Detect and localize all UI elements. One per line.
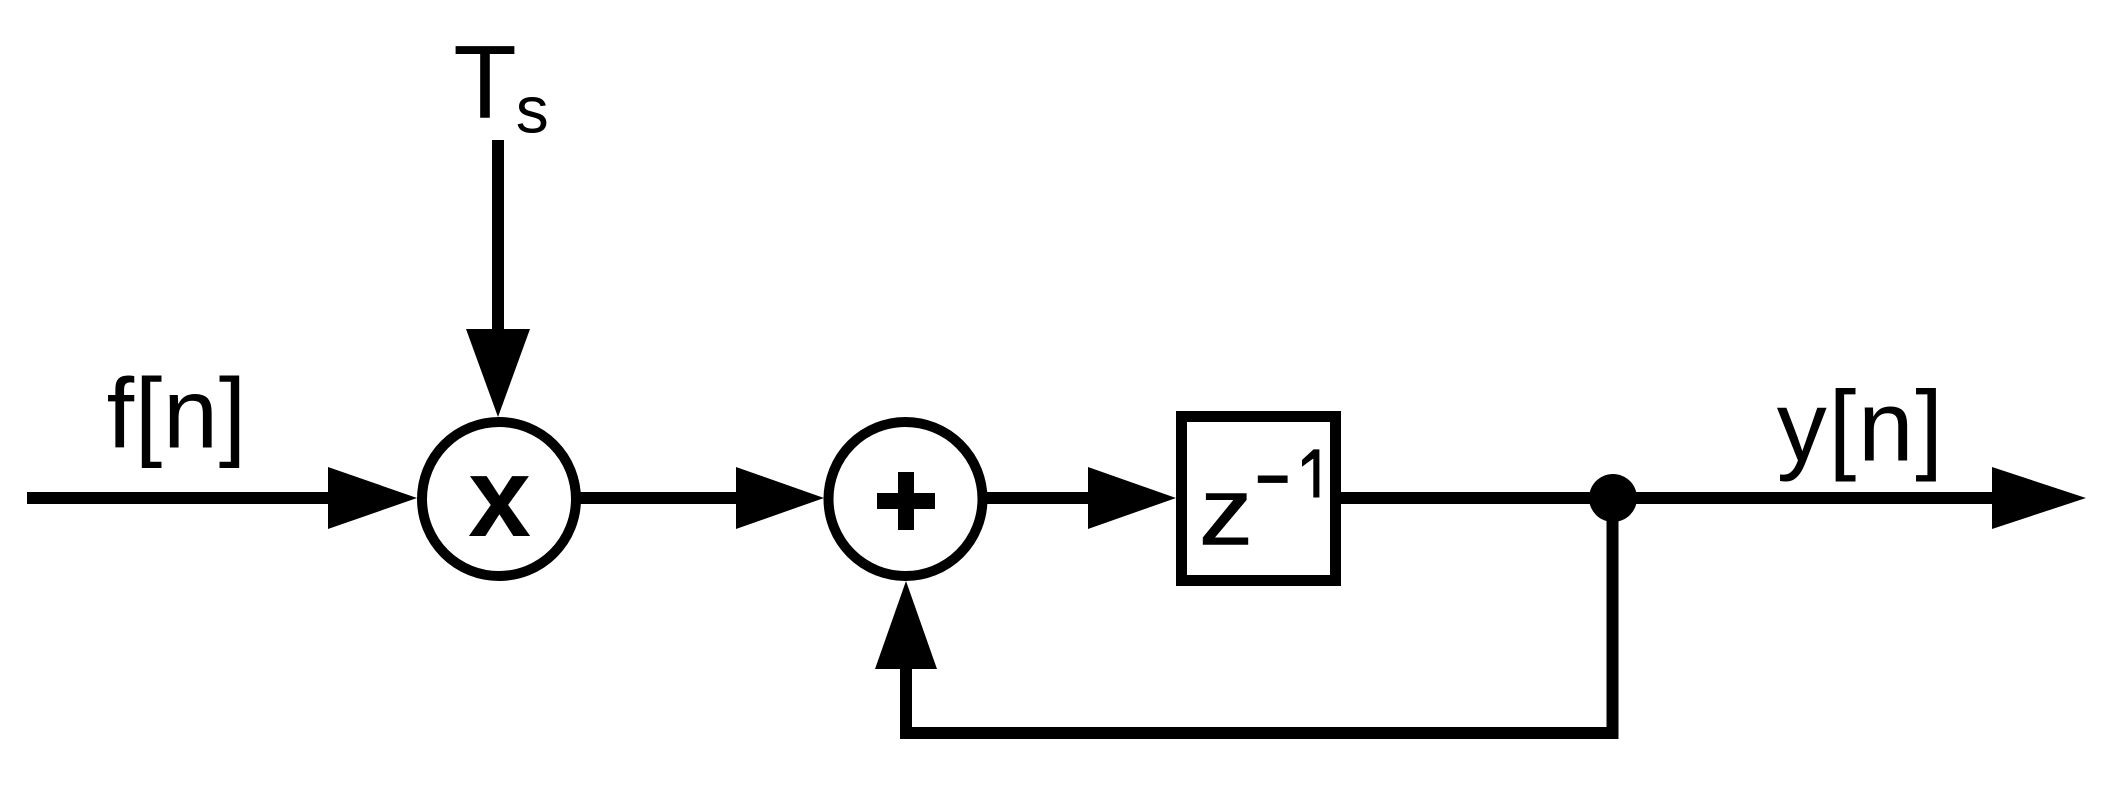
arrowhead into delay block	[1088, 467, 1176, 529]
delay block U3 rectangle	[1182, 417, 1336, 581]
wire: feedback path from node down, left and up into adder	[906, 504, 1613, 733]
wire: delay block to output y[n] segment	[1280, 492, 1996, 504]
svg-text:f[n]: f[n]	[107, 358, 247, 469]
multiplier U1 circle	[422, 422, 576, 576]
svg-text:y[n]: y[n]	[1777, 370, 1945, 482]
delay block U3 label superscript minus	[1258, 476, 1288, 483]
svg-text:x: x	[468, 434, 531, 560]
wire: multiplier to adder segment	[499, 492, 740, 504]
adder U2 plus sign vertical bar	[898, 472, 914, 530]
svg-text:s: s	[516, 73, 549, 147]
adder U2 plus sign horizontal bar	[877, 493, 935, 509]
wire: input f[n] horizontal segment	[27, 492, 332, 504]
arrowhead output y[n]	[1992, 467, 2086, 529]
adder U2 circle	[829, 422, 983, 576]
wire: Ts vertical drop into multiplier	[492, 140, 504, 334]
svg-text:T: T	[453, 25, 517, 141]
wire: adder to delay block segment	[906, 492, 1092, 504]
arrowhead feedback up into adder	[875, 581, 937, 669]
arrowhead into adder	[736, 467, 824, 529]
arrowhead into multiplier	[328, 467, 417, 529]
arrowhead Ts down into multiplier	[466, 329, 530, 417]
delay block U3 label z	[1203, 493, 1248, 545]
delay block U3 label superscript 1	[1302, 449, 1319, 497]
node junction dot on output wire	[1589, 474, 1637, 522]
